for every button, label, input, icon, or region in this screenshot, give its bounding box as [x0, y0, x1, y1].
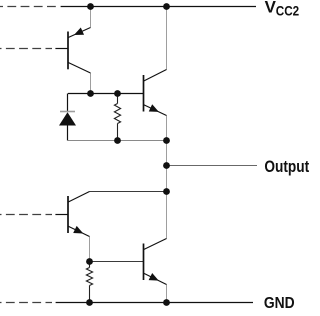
svg-text:CC2: CC2: [276, 3, 300, 18]
svg-text:Output: Output: [264, 158, 309, 176]
svg-text:V: V: [265, 0, 277, 16]
svg-text:GND: GND: [264, 295, 295, 311]
